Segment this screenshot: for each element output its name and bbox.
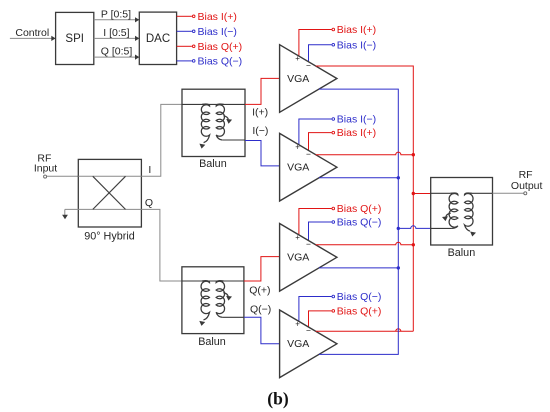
terminal bias1 U4 [332, 295, 335, 298]
svg-text:90° Hybrid: 90° Hybrid [84, 231, 135, 243]
terminal bias1 U1 [332, 28, 335, 31]
wire bias2 of U4 [309, 311, 332, 327]
svg-text:Bias Q(−): Bias Q(−) [337, 291, 382, 303]
svg-text:Q: Q [145, 197, 153, 209]
wire bias1 of U2 [299, 119, 332, 145]
terminal DAC bias 4 [192, 60, 195, 63]
terminal bias2 U3 [332, 221, 335, 224]
svg-text:DAC: DAC [146, 33, 170, 45]
wire Q[0:5] [94, 56, 139, 58]
wire I(-) to VGA2 [245, 141, 280, 166]
VGA U1 [280, 45, 337, 113]
wire bias1 of U3 [299, 209, 332, 235]
svg-text:I(+): I(+) [252, 106, 268, 118]
wire bias2 of U1 [309, 45, 332, 62]
hybrid cross X [93, 176, 126, 209]
wire DAC bias 3 [177, 45, 192, 47]
wire DAC bias 4 [177, 60, 192, 62]
svg-text:Bias I(−): Bias I(−) [337, 114, 376, 126]
B3 primary tap arrow [446, 213, 451, 217]
ground termination of hybrid [64, 209, 66, 215]
svg-text:Bias I(−): Bias I(−) [337, 39, 376, 51]
svg-text:Bias Q(−): Bias Q(−) [337, 217, 382, 229]
B3 secondary ground arrow [470, 232, 476, 237]
svg-text:Bias Q(+): Bias Q(+) [198, 41, 243, 53]
block SPI [56, 12, 94, 64]
terminal bias1 U3 [332, 207, 335, 210]
hybrid Q through-line [65, 208, 142, 210]
wire Control input [10, 37, 55, 39]
svg-text:Q(+): Q(+) [249, 284, 270, 296]
balun B2 (Q path) [182, 267, 244, 334]
junction blue feed [397, 227, 400, 230]
B3 primary top line [431, 192, 451, 194]
blue summing bus [319, 89, 398, 354]
svg-text:−: − [306, 239, 311, 249]
terminal bias2 U4 [332, 310, 335, 313]
wire bias2 of U2 [309, 133, 332, 151]
svg-text:+: + [295, 233, 300, 242]
wire Q(+) to VGA3 [244, 257, 280, 281]
VGA U3 [280, 224, 337, 292]
svg-text:VGA: VGA [287, 162, 309, 174]
svg-text:+: + [295, 54, 300, 63]
wire U2 blue out [319, 177, 398, 179]
block DAC [139, 12, 176, 64]
wire I[0:5] [94, 37, 139, 39]
svg-text:Bias Q(+): Bias Q(+) [337, 306, 382, 318]
wire I(+) to VGA1 [245, 78, 280, 104]
svg-text:Bias I(+): Bias I(+) [337, 24, 376, 36]
svg-text:Balun: Balun [198, 336, 226, 348]
wire red bus to output balun [413, 193, 430, 195]
wire bias1 of U1 [299, 30, 332, 57]
svg-text:−: − [306, 149, 311, 159]
terminal DAC bias 2 [192, 30, 195, 33]
wire blue bus to output balun [398, 226, 430, 229]
svg-text:Bias I(+): Bias I(+) [337, 127, 376, 139]
terminal DAC bias 1 [192, 15, 195, 18]
B3 primary coil [449, 193, 458, 228]
junction U2 red [412, 153, 415, 156]
svg-text:Bias Q(−): Bias Q(−) [198, 55, 243, 67]
svg-text:I [0:5]: I [0:5] [103, 27, 129, 39]
svg-text:Bias Q(+): Bias Q(+) [337, 203, 382, 215]
terminal bias2 U2 [332, 131, 335, 134]
terminal RF output [524, 192, 527, 195]
svg-text:Input: Input [34, 163, 57, 175]
wire P[0:5] [94, 19, 139, 21]
wire bias1 of U4 [299, 297, 332, 322]
svg-text:Q(−): Q(−) [250, 304, 271, 316]
wire U3 blue out [319, 267, 398, 269]
svg-text:Control: Control [15, 27, 49, 39]
wire Q(-) to VGA4 [244, 317, 280, 343]
terminal bias2 U1 [332, 43, 335, 46]
svg-text:Bias I(+): Bias I(+) [198, 11, 237, 23]
svg-text:Bias I(−): Bias I(−) [198, 26, 237, 38]
svg-text:SPI: SPI [65, 33, 84, 45]
svg-text:+: + [295, 319, 300, 328]
wire Q route [141, 209, 182, 281]
wire DAC bias 2 [177, 30, 192, 32]
svg-text:(b): (b) [267, 389, 289, 409]
wire I route [141, 104, 182, 176]
svg-text:I(−): I(−) [252, 125, 268, 137]
hybrid I through-line [78, 175, 141, 177]
balun B1 (I path) [182, 89, 245, 156]
B3 secondary coil [465, 193, 474, 231]
wire bias2 of U3 [309, 222, 332, 241]
block 90deg hybrid U0 [78, 159, 141, 227]
VGA U2 [280, 133, 337, 201]
wire DAC bias 1 [177, 15, 192, 17]
terminal RF input [44, 175, 47, 178]
svg-text:I: I [148, 164, 151, 176]
terminal bias1 U2 [332, 118, 335, 121]
svg-text:−: − [306, 326, 311, 336]
VGA U4 [280, 310, 337, 378]
svg-text:P [0:5]: P [0:5] [101, 8, 131, 20]
terminal DAC bias 3 [192, 45, 195, 48]
wire RF input [47, 175, 79, 177]
B3 primary bottom line [431, 227, 452, 229]
junction U3 red [412, 243, 415, 246]
B3 secondary top line [472, 192, 493, 194]
wire U2 red out [316, 152, 414, 155]
wire U3 red out [316, 242, 414, 245]
junction U2 blue [397, 176, 400, 179]
svg-text:Q [0:5]: Q [0:5] [101, 46, 133, 58]
svg-text:VGA: VGA [287, 73, 309, 85]
svg-text:Balun: Balun [448, 247, 476, 259]
wire RF output [493, 192, 524, 194]
red summing bus [316, 66, 414, 331]
junction red feed [412, 192, 415, 195]
svg-text:VGA: VGA [287, 252, 309, 264]
svg-text:+: + [295, 143, 300, 152]
svg-text:Balun: Balun [199, 158, 227, 170]
balun B3 (output) [431, 178, 493, 246]
svg-text:VGA: VGA [287, 338, 309, 350]
junction U3 blue [397, 266, 400, 269]
svg-text:Output: Output [511, 180, 543, 192]
svg-text:−: − [306, 60, 311, 70]
